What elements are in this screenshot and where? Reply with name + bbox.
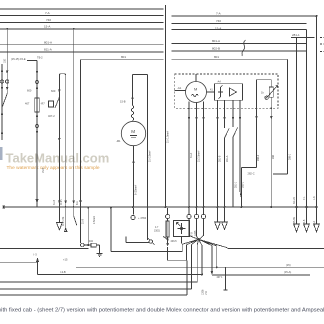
alternator sine symbol <box>192 94 199 97</box>
junction dot below resistor <box>167 238 169 240</box>
line 801 left <box>80 59 164 61</box>
motor M1 underline <box>130 136 137 138</box>
svg-text:31-/1.5mm²: 31-/1.5mm² <box>167 131 170 143</box>
connector circle x=82 <box>81 243 85 247</box>
reg wire 3 lower <box>232 137 234 207</box>
svg-text:(15): (15) <box>286 263 291 267</box>
junction dot x=88 bottom <box>87 244 89 246</box>
line 281-1 top right <box>291 37 315 39</box>
junction dot x=88 top <box>87 207 89 209</box>
bottom line y=275 right <box>212 274 310 276</box>
svg-text:I -3: I -3 <box>33 253 37 257</box>
loop pair right wire <box>65 75 67 207</box>
fan vertical x=211.9 to y275 <box>211 246 213 272</box>
tail into circle <box>80 244 82 246</box>
arrow on motor wire <box>131 98 134 102</box>
svg-text:I-3-B: I-3-B <box>60 270 66 274</box>
svg-text:M-V1 Bk: M-V1 Bk <box>62 216 65 226</box>
svg-text:15-B: 15-B <box>42 168 45 173</box>
svg-text:282-C: 282-C <box>248 172 255 176</box>
bus line 7-A left <box>0 14 164 16</box>
alternator top feed <box>195 74 197 82</box>
alt wire 1 <box>188 102 190 208</box>
alternator G1 circle <box>186 82 207 103</box>
arrow on x=2 <box>1 71 4 75</box>
sensor symbol dot <box>180 227 183 230</box>
svg-text:30-1/6: 30-1/6 <box>293 197 296 204</box>
wire x=308 <box>306 30 308 207</box>
inductor coil <box>131 106 134 121</box>
arrow up I-3 <box>36 257 39 262</box>
resistor R7 <box>35 98 40 112</box>
bottom line y=295 <box>0 294 187 296</box>
svg-text:15E: 15E <box>4 58 7 63</box>
fan vertical x=182.3 to box bottom <box>181 244 183 251</box>
riser x=37.5 <box>37 262 39 274</box>
svg-text:15-B: 15-B <box>120 100 126 104</box>
arrow on x=7.2 <box>6 71 9 75</box>
svg-text:15-A: 15-A <box>44 24 50 28</box>
dashed continuation stubs right edge <box>320 38 324 52</box>
connector circle x=2 <box>0 80 3 83</box>
wire x=80 from 801 <box>80 60 82 244</box>
svg-text:288-1: 288-1 <box>289 153 292 160</box>
svg-text:7-8: 7-8 <box>205 291 208 295</box>
arrows on alt wires <box>188 117 191 121</box>
arrows on reg wires <box>216 117 219 121</box>
svg-text:M-V1: M-V1 <box>60 199 63 205</box>
dots right wires on bus <box>295 206 297 208</box>
svg-text:281-B: 281-B <box>218 155 221 162</box>
arrow on x=36 y90 <box>36 88 39 92</box>
connector rings below alt wires <box>187 214 191 218</box>
svg-text:8-/25mm²: 8-/25mm² <box>135 185 138 195</box>
junction dot x=111 <box>110 207 112 209</box>
svg-text:281-1: 281-1 <box>234 181 237 188</box>
pot left bend <box>242 168 257 207</box>
box X2 left edge <box>110 208 112 252</box>
switch blade reg wire2 <box>225 128 230 138</box>
sensor box <box>174 221 190 237</box>
svg-text:811: 811 <box>76 201 79 205</box>
fan vertical x=197.3 to y282 <box>196 245 198 282</box>
svg-text:31-B: 31-B <box>82 219 85 224</box>
regulator amp triangle <box>230 88 237 96</box>
sensor symbol cross <box>178 228 186 230</box>
svg-text:+ 4784: + 4784 <box>138 216 147 220</box>
switch blade x=59.5 <box>55 97 59 108</box>
svg-text:1k: 1k <box>261 91 264 95</box>
dots alt wires on bus <box>188 206 190 208</box>
svg-text:1-8: 1-8 <box>313 196 316 200</box>
svg-text:-M1: -M1 <box>116 139 121 143</box>
bottom line y=289 <box>0 288 192 290</box>
svg-text:802-B: 802-B <box>212 47 220 51</box>
stub x=63 below <box>65 208 67 231</box>
bottom line y=248.5 right <box>228 248 324 250</box>
arrow2 on x=7.2 <box>6 87 9 91</box>
reg wire 4 <box>239 100 241 190</box>
bus line 30 (left top) <box>0 8 164 10</box>
junction dot x=73.7 top <box>73 28 75 30</box>
loop pair top bar <box>59 74 65 76</box>
svg-text:30-A: 30-A <box>313 221 316 226</box>
connector ring below motor wire <box>131 215 135 219</box>
motor loop left wire <box>132 75 134 106</box>
wire col x=7.2 <box>6 29 8 94</box>
switch below x=73.7 <box>74 208 77 226</box>
alt wire 2 <box>196 103 198 208</box>
motor junction ticks <box>148 239 155 245</box>
svg-text:7-1: 7-1 <box>303 196 306 200</box>
motor loop right wire <box>147 75 149 240</box>
svg-text:M: M <box>131 129 135 134</box>
dots reg wires on bus <box>217 206 219 208</box>
switch blade from x=7.2 to x=2 <box>2 94 7 108</box>
pot right wire lower <box>270 97 272 207</box>
svg-text:15-A: 15-A <box>215 27 221 31</box>
stub to ring <box>133 208 135 215</box>
junction dot motor wire <box>132 206 134 208</box>
separator wire between sections <box>165 5 167 207</box>
tent diagonal far right shallow <box>199 239 228 248</box>
svg-text:740-B: 740-B <box>303 219 306 226</box>
dots on dashed bottom pot <box>256 107 258 109</box>
svg-text:-A4: -A4 <box>217 81 221 84</box>
arrow on x=36 y73 <box>36 71 39 75</box>
svg-text:7-A: 7-A <box>45 11 50 15</box>
tent diagonal far left <box>182 239 198 244</box>
wire circle to ground <box>84 245 100 254</box>
bus line 7-A right <box>172 15 317 17</box>
open triangle below reg wire2 <box>222 208 228 230</box>
junction dot fan y274 <box>201 274 203 276</box>
tent diagonal left3 <box>192 239 199 244</box>
svg-text:402: 402 <box>89 240 94 243</box>
svg-text:407: 407 <box>25 102 30 106</box>
motor M1 circle <box>121 121 145 145</box>
relay box S2 <box>49 101 54 107</box>
arrow on x=59.5 y140 <box>58 138 61 142</box>
svg-text:The watermark only appears on: The watermark only appears on this sampl… <box>7 165 100 171</box>
pot loop top <box>257 79 272 81</box>
svg-text:407-2: 407-2 <box>48 114 55 118</box>
reg wire 3 <box>232 100 234 127</box>
arrows pot wires <box>255 116 258 120</box>
junction dot separator bottom <box>165 206 167 208</box>
arrow on x=59.5 y92 <box>58 90 61 94</box>
svg-text:+15: +15 <box>63 258 68 262</box>
svg-text:403-5: 403-5 <box>171 240 178 243</box>
svg-text:801: 801 <box>121 55 126 59</box>
pot right wire upper <box>270 80 272 87</box>
arrow2 on x=2 <box>1 87 4 91</box>
tent diagonal right2 <box>199 239 217 246</box>
vertical x=225.6 connector drop <box>225 267 227 290</box>
junction dot x=318 top <box>316 15 318 17</box>
bottom line y=274.5 left <box>38 274 203 276</box>
alternator left stub <box>175 89 186 91</box>
tick at start of ground bus <box>3 205 5 209</box>
bus line 740 left <box>0 22 164 24</box>
potentiometer R body <box>269 87 273 97</box>
svg-text:31-B: 31-B <box>53 200 56 205</box>
tent diagonal left2 <box>187 239 199 244</box>
wire x=318 <box>316 16 318 207</box>
bus dots left cols <box>59 206 61 208</box>
reg wire 2 <box>224 100 226 128</box>
svg-text:1205: 1205 <box>194 230 197 236</box>
wire x=73.7 <box>73 29 75 207</box>
wire to bottom segment <box>167 247 169 260</box>
bottom line y=267.3 <box>76 266 324 268</box>
fan vertical x=186 to y260 <box>186 244 188 260</box>
switch tick at junction <box>163 236 168 239</box>
dot pot right wire <box>270 206 272 208</box>
svg-text:801-A: 801-A <box>44 40 52 44</box>
tent diagonal right3 <box>199 239 212 245</box>
arrow3 on x=2 <box>1 114 4 118</box>
wire 288-1 x=287.5 <box>273 59 288 174</box>
line 801-A left <box>0 44 164 46</box>
bottom line y=248.5 left <box>0 248 88 250</box>
tick end x=225.6 <box>224 289 228 291</box>
svg-text:801-A: 801-A <box>212 39 220 43</box>
svg-text:41: 41 <box>210 89 213 92</box>
sensor arrow <box>177 223 181 227</box>
svg-text:TakeManual.com: TakeManual.com <box>6 150 110 165</box>
fan vertical x=202 to y274.5 <box>201 246 203 275</box>
svg-text:(15-15) 15-E: (15-15) 15-E <box>11 57 26 61</box>
fan vertical x=216.8 to y267.3 <box>216 246 218 267</box>
arrow x36 onto bus 207 <box>36 199 39 204</box>
svg-text:801: 801 <box>214 55 219 59</box>
arrow4 on x=2 <box>1 133 4 137</box>
splice node <box>197 238 199 240</box>
svg-text:811-A: 811-A <box>44 47 52 51</box>
potentiometer wiper arrow <box>266 86 278 99</box>
connector circle x=36 y126 <box>35 124 38 127</box>
pot wiper circle <box>265 96 268 99</box>
svg-text:288-3: 288-3 <box>257 154 260 161</box>
reg wire 4 lower <box>240 190 242 199</box>
arrow on x=36 y118 <box>36 116 39 120</box>
tent diagonal right1 <box>199 239 203 245</box>
bottom line y=262 left <box>0 261 38 263</box>
line 801 right <box>172 58 288 60</box>
junction dot fan y267 <box>216 266 218 268</box>
svg-text:M: M <box>194 87 197 92</box>
loop pair left wire <box>58 75 60 207</box>
open triangle below x=308 <box>304 208 310 232</box>
svg-text:2.5mm²: 2.5mm² <box>93 216 96 224</box>
dot pot bend wire <box>241 206 243 208</box>
resistor inline <box>91 243 96 247</box>
svg-text:-G1: -G1 <box>177 86 182 90</box>
regulator box <box>215 84 243 101</box>
motor junction circle <box>149 240 152 243</box>
fan vertical x=191.5 to y289 <box>191 245 193 290</box>
ground symbol <box>97 254 103 257</box>
stubs to rings <box>189 208 204 214</box>
resistor vertical 150ohm <box>166 221 169 237</box>
stub bus to ring <box>167 208 169 214</box>
svg-text:(15-A): (15-A) <box>284 270 291 274</box>
dashed harness box <box>175 74 278 108</box>
ground bus wire y=207 <box>4 206 317 208</box>
connector circle x=7.2 <box>6 80 9 83</box>
alt wire 3 <box>203 102 205 208</box>
svg-text:740: 740 <box>46 18 51 22</box>
svg-text:TB-2: TB-2 <box>37 56 43 60</box>
svg-text:31/2.5mm²: 31/2.5mm² <box>198 150 201 162</box>
line 811-A left <box>0 51 164 53</box>
ground triangle x=57 <box>57 208 63 230</box>
open triangle below x=318 <box>314 208 320 232</box>
open triangle below reg wire1 <box>215 208 221 230</box>
reg wire 1 <box>217 100 219 207</box>
wire x=88.3 <box>87 208 89 246</box>
motor bottom wire <box>133 146 135 207</box>
junction dot col x=7.2 <box>6 28 8 30</box>
box X2 bottom edge <box>111 251 182 253</box>
switch blade reg wire3 <box>233 127 238 137</box>
svg-text:31-/10mm²: 31-/10mm² <box>149 150 152 162</box>
svg-text:-R7: -R7 <box>41 102 46 106</box>
stub 15-E <box>27 60 37 62</box>
watermark TakeManual.com <box>0 147 109 171</box>
reg wire 2 lower <box>224 138 226 207</box>
motor loop top bar <box>133 74 148 76</box>
svg-text:7-B: 7-B <box>191 232 194 236</box>
bus line 15-A right <box>172 29 307 31</box>
bus line 15-A left <box>0 28 164 30</box>
wire box bottom down <box>181 237 183 244</box>
flexible wire squiggle <box>242 40 246 56</box>
svg-text:600: 600 <box>51 89 56 93</box>
tent diagonal mid <box>197 239 198 245</box>
svg-text:288: 288 <box>272 154 275 159</box>
motor junction step horizontal <box>126 242 149 244</box>
svg-text:150Ω: 150Ω <box>154 230 160 233</box>
dots on dashed box bottom <box>188 107 190 109</box>
connector circle x=36 y82 <box>35 80 38 83</box>
svg-text:600: 600 <box>27 89 32 93</box>
svg-text:31-A: 31-A <box>190 153 193 158</box>
svg-text:407 1: 407 1 <box>217 276 224 279</box>
svg-text:with fixed cab - (sheet 2/7) v: with fixed cab - (sheet 2/7) version wit… <box>0 308 324 314</box>
motor junction step vertical <box>125 237 127 243</box>
arrows above bus left cols <box>58 201 82 205</box>
line 802-B right <box>172 50 307 52</box>
bus line 740 right <box>172 23 307 25</box>
arrow x=80 above bus <box>79 200 82 204</box>
svg-text:7-A: 7-A <box>216 12 221 16</box>
arrow on x=36 y133 <box>36 131 39 135</box>
splice wires from rings <box>189 219 204 239</box>
pot left wire <box>256 80 258 168</box>
wire col x=36 <box>36 61 38 208</box>
open triangle below x=298 <box>294 208 300 232</box>
sensor symbol vertical <box>181 223 183 234</box>
wire col x=2 <box>1 64 3 140</box>
regulator zener symbol <box>218 86 223 99</box>
fan vertical x=187b to y295 <box>186 260 188 295</box>
line 801-A right <box>172 43 307 45</box>
bottom line y=282 <box>0 281 197 283</box>
link circle to regulator <box>207 91 215 93</box>
svg-text:281-A: 281-A <box>226 155 229 162</box>
wire x=298 <box>291 38 297 208</box>
svg-text:281-1: 281-1 <box>292 33 300 37</box>
connector ring x=167 <box>166 214 170 218</box>
wire resistor to junction <box>167 219 169 243</box>
bottom line y=260.3 mid segment <box>168 259 187 261</box>
svg-text:740: 740 <box>216 19 221 23</box>
arrow below junction <box>166 243 169 247</box>
